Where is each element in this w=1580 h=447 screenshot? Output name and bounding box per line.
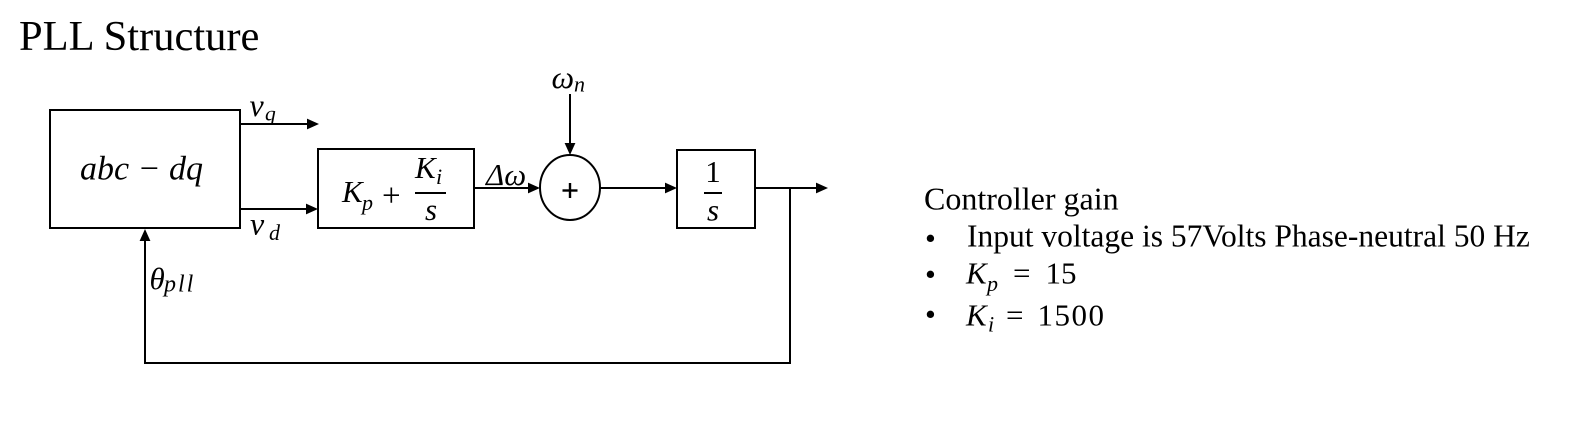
wire vq	[241, 119, 319, 130]
svg-text:=: =	[1013, 256, 1030, 291]
svg-text:Controller gain: Controller gain	[924, 181, 1119, 217]
label Kp+Ki/s	[341, 150, 446, 227]
svg-text:pll: pll	[162, 272, 195, 298]
label vd	[250, 206, 281, 246]
svg-text:θ: θ	[150, 261, 165, 296]
svg-text:+: +	[382, 178, 401, 214]
svg-text:v: v	[250, 87, 265, 123]
svg-text:Δω: Δω	[484, 157, 526, 192]
label delta-omega	[484, 157, 526, 192]
svg-text:•: •	[925, 297, 936, 332]
svg-text:•: •	[925, 221, 936, 256]
svg-text:q: q	[265, 102, 276, 126]
svg-text:K: K	[965, 256, 989, 291]
svg-text:ω: ω	[552, 59, 575, 95]
label omega-n	[552, 59, 586, 97]
block PI controller Kp+Ki/s	[318, 149, 474, 228]
svg-text:1: 1	[705, 154, 721, 189]
svg-text:i: i	[436, 164, 442, 189]
wire feedback bottom	[144, 362, 791, 364]
svg-text:abc − dq: abc − dq	[80, 151, 203, 188]
text Kp = 15	[965, 256, 1077, 297]
svg-text:K: K	[965, 298, 989, 333]
block integrator 1/s	[677, 150, 755, 228]
label theta-pll	[150, 261, 196, 298]
summer circle	[540, 155, 600, 220]
svg-text:1500: 1500	[1038, 298, 1106, 333]
label vq	[250, 87, 277, 126]
svg-text:v: v	[250, 206, 265, 242]
svg-text:Input voltage is 57Volts Phase: Input voltage is 57Volts Phase-neutral 5…	[967, 219, 1530, 254]
wire PI to summer	[475, 183, 540, 194]
wire vd	[241, 204, 318, 215]
wire output	[755, 183, 828, 194]
label 1/s	[704, 154, 722, 228]
svg-text:s: s	[707, 193, 719, 228]
svg-text:s: s	[425, 192, 437, 227]
block abc-dq	[50, 110, 240, 228]
text Ki = 1500	[965, 298, 1106, 337]
svg-text:•: •	[925, 256, 936, 291]
svg-text:15: 15	[1046, 256, 1077, 291]
svg-text:p: p	[360, 190, 373, 215]
svg-text:n: n	[574, 72, 585, 97]
wire omega-n into summer	[565, 94, 576, 155]
wire feedback up into abc-dq	[140, 229, 151, 364]
summer plus sign	[563, 183, 578, 198]
wire feedback vertical drop	[789, 187, 791, 364]
svg-text:K: K	[414, 150, 438, 185]
svg-text:d: d	[269, 220, 281, 245]
svg-text:PLL Structure: PLL Structure	[19, 13, 259, 60]
svg-text:=: =	[1006, 298, 1023, 333]
svg-text:i: i	[988, 312, 994, 337]
wire summer to integrator	[600, 183, 677, 194]
svg-text:p: p	[985, 271, 998, 296]
